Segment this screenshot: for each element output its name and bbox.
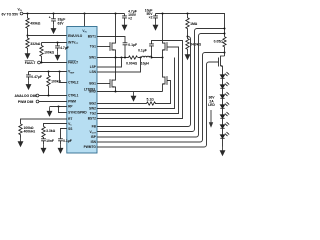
capacitor 0.1uF SS [58, 139, 63, 144]
LED D5 [220, 112, 229, 118]
wire ISP [97, 34, 225, 138]
wire [222, 108, 224, 114]
svg-text:CTRL1: CTRL1 [68, 94, 78, 98]
svg-text:LSP: LSP [90, 65, 97, 69]
ground output cap [153, 21, 158, 30]
svg-text:LSN: LSN [90, 70, 97, 74]
capacitor 0.1uF BST1 [123, 43, 128, 58]
resistor 332k [26, 36, 29, 50]
wire PWM [39, 101, 67, 103]
svg-text:0.1µF: 0.1µF [138, 49, 147, 53]
LED D2 [220, 82, 229, 88]
svg-text:TG1: TG1 [90, 45, 96, 49]
svg-text:5.1Ω: 5.1Ω [147, 97, 155, 101]
ground GND pin [131, 92, 136, 101]
node dots VOUT column [224, 28, 226, 54]
node CTRL1 100k [48, 95, 50, 97]
resistor 1M feedback top [186, 14, 189, 37]
svg-text:FAULT: FAULT [25, 61, 37, 65]
LED D3 [220, 92, 229, 98]
wire SW2 [97, 58, 175, 109]
transistor M3 boost low-side [163, 58, 168, 92]
wire TG1 [97, 46, 110, 48]
transistor M1 buck high-side [110, 14, 116, 58]
resistor 100k RT [19, 124, 22, 138]
LED D1 [220, 72, 229, 78]
svg-text:54.9kΩ: 54.9kΩ [190, 43, 201, 47]
wire RP [50, 106, 67, 108]
svg-text:400kHz: 400kHz [24, 130, 36, 134]
wire VOUT sense [97, 29, 225, 132]
IC pin labels right [84, 35, 97, 150]
node INTVCC cap [57, 42, 59, 44]
capacitor 33uF input bulk [51, 14, 56, 25]
wire input rail [23, 13, 125, 15]
ground input ceramic [122, 21, 127, 30]
ground RT [18, 138, 23, 147]
ground 332k [25, 50, 30, 59]
svg-text:0.05Ω: 0.05Ω [214, 40, 224, 44]
svg-text:ANALOG DIM: ANALOG DIM [15, 94, 37, 98]
transistor M2 buck low-side [110, 58, 116, 92]
node dots input rail [27, 13, 117, 15]
svg-text:LED: LED [208, 103, 215, 107]
wire output rail [156, 14, 225, 37]
ground VC [41, 144, 46, 153]
svg-text:FAULT: FAULT [68, 61, 78, 65]
terminal VIN [20, 12, 23, 15]
svg-text:499kΩ: 499kΩ [30, 22, 41, 26]
node dots output rail [162, 13, 189, 15]
ground VREF cap [26, 80, 31, 89]
wire CTRL1 [39, 95, 67, 97]
svg-text:0.1µF: 0.1µF [63, 139, 72, 143]
resistor 54.9k feedback bottom [186, 37, 189, 51]
svg-text:SS: SS [68, 127, 72, 131]
svg-text:BG1: BG1 [89, 82, 96, 86]
wire [222, 98, 224, 104]
wire BG1 [97, 83, 110, 85]
svg-text:PWMTG: PWMTG [84, 145, 97, 149]
terminal PWM DIM [36, 100, 39, 103]
svg-text:0.47µF: 0.47µF [31, 75, 42, 79]
svg-text:BST2: BST2 [88, 117, 96, 121]
terminal Analog DIM [36, 94, 39, 97]
svg-text:SW1: SW1 [89, 56, 96, 60]
wire EN/UVLO [28, 35, 67, 37]
node FAULT pull-up [41, 62, 43, 64]
svg-text:PWM: PWM [68, 100, 76, 104]
svg-text:100kΩ: 100kΩ [44, 50, 55, 54]
svg-text:FB: FB [92, 125, 97, 129]
wire FB [97, 37, 191, 127]
svg-text:TG2: TG2 [90, 112, 96, 116]
wire RT [21, 119, 67, 124]
svg-text:PWM DIM: PWM DIM [18, 100, 34, 104]
capacitor 0.47uF VREF [26, 72, 31, 81]
capacitor 10nF VC [41, 139, 46, 144]
svg-text:SYNC/SPRD: SYNC/SPRD [68, 111, 87, 115]
svg-text:6V TO 55V: 6V TO 55V [2, 13, 19, 17]
wire LSP [97, 58, 122, 68]
svg-text:4.7µF: 4.7µF [60, 46, 69, 50]
svg-text:10nF: 10nF [46, 139, 54, 143]
svg-text:×2: ×2 [149, 16, 153, 20]
ground RP [47, 107, 52, 116]
resistor 0.05 ohm LED sense [223, 37, 226, 56]
wire SS [61, 129, 67, 139]
svg-text:EN/UVLO: EN/UVLO [68, 34, 83, 38]
terminal FAULT [38, 61, 41, 64]
transistor M4 boost high-side [163, 14, 168, 58]
svg-text:0.1µF: 0.1µF [128, 43, 137, 47]
node EN/UVLO [27, 35, 29, 37]
svg-text:×2: ×2 [128, 17, 132, 21]
LED D4 [220, 102, 229, 108]
capacitor 4.7uF input ceramic [122, 14, 127, 21]
capacitor 0.1uF BST2 [149, 44, 154, 58]
wire ISN [97, 53, 225, 143]
wire CTRL2 [60, 72, 67, 83]
wire [222, 128, 224, 134]
wire TG2 [97, 47, 179, 114]
svg-text:BG2: BG2 [89, 102, 96, 106]
wire BST2 [97, 41, 183, 119]
svg-text:+: + [49, 15, 51, 19]
wire FAULT [40, 62, 66, 64]
node dots SW1 [115, 57, 164, 59]
node FB [187, 36, 189, 38]
node CTRL2 branch [59, 71, 61, 73]
wire [222, 118, 224, 124]
capacitor 10uF output [153, 14, 158, 21]
op-amp U1 LT8393 controller box [67, 27, 97, 154]
ground LED string [220, 147, 225, 156]
LED D7 [220, 132, 229, 138]
svg-text:BST1: BST1 [88, 35, 96, 39]
svg-text:GND: GND [89, 90, 97, 94]
wire [222, 138, 224, 146]
wire [222, 78, 224, 84]
IC pin labels left [68, 34, 87, 131]
arrow LED current [210, 110, 212, 123]
svg-text:SW2: SW2 [89, 107, 96, 111]
svg-text:0.004Ω: 0.004Ω [126, 61, 137, 65]
svg-text:CTRL2: CTRL2 [68, 81, 78, 85]
svg-text:3.3kΩ: 3.3kΩ [46, 129, 56, 133]
capacitor 4.7uF INTVCC [55, 43, 60, 52]
resistor 100k FAULT pull-up [40, 43, 43, 63]
wire LSN [97, 58, 141, 73]
LED D6 [220, 122, 229, 128]
wire VIN pin [84, 14, 86, 27]
transistor M5 PWM dimming [219, 56, 225, 75]
ground feedback divider [185, 51, 190, 60]
resistor 5.1 ohm BG2 [147, 102, 156, 105]
wire BG2 with resistor 5.1 ohm [97, 81, 171, 104]
wire INTVCC [42, 42, 67, 44]
wire BST1 [97, 37, 125, 43]
wire PWMTG [97, 62, 219, 147]
svg-text:ISN: ISN [91, 140, 97, 144]
node VREF 100k [48, 71, 50, 73]
svg-text:10µH: 10µH [141, 61, 150, 65]
svg-text:63V: 63V [58, 21, 65, 25]
IC FAULT pin overline [68, 59, 76, 61]
node RP SYNC [58, 106, 60, 108]
svg-text:ISP: ISP [91, 135, 97, 139]
inductor L1 10uH [142, 56, 152, 57]
wire VREF [29, 71, 67, 73]
resistor 3.3k VC [42, 127, 45, 139]
ground SS [58, 144, 63, 153]
wire VC [44, 124, 67, 127]
wire SW1 [97, 57, 163, 59]
svg-text:RT: RT [68, 117, 72, 121]
svg-text:332kΩ: 332kΩ [30, 42, 41, 46]
node M2 source [115, 91, 117, 93]
ground INTVCC cap [55, 51, 60, 60]
wire SYNC/SPRD [59, 107, 67, 113]
wire GND [97, 91, 163, 93]
svg-text:1MΩ: 1MΩ [190, 22, 198, 26]
resistor 499k [26, 14, 29, 36]
resistor 0.004 ohm sense [129, 56, 138, 59]
wire [222, 88, 224, 94]
ground 33uF [51, 24, 56, 33]
resistor 100k CTRL [47, 72, 50, 96]
